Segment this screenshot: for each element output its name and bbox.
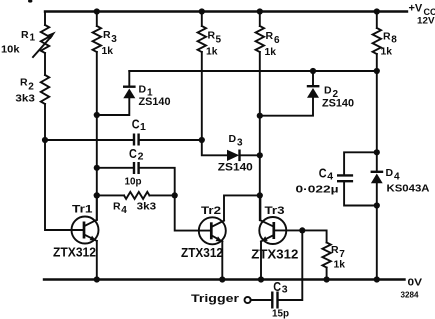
node: R4 left / Tr1 collector	[94, 192, 100, 198]
label KS043A	[387, 183, 430, 195]
label D3	[229, 133, 244, 149]
node: 0V / R8 branch	[374, 276, 380, 282]
node: top rail / R6	[257, 8, 263, 14]
svg-text:3284: 3284	[401, 291, 420, 300]
svg-text:ZTX312: ZTX312	[53, 246, 96, 260]
svg-text:C: C	[319, 167, 327, 181]
resistor R1 (variable)	[33, 25, 56, 57]
svg-text:Tr3: Tr3	[265, 205, 285, 217]
svg-text:C: C	[132, 118, 140, 132]
label 15p	[272, 308, 289, 319]
svg-text:8: 8	[391, 35, 397, 46]
wire: left branch R2 to Tr1 base	[45, 104, 84, 230]
diode D2	[260, 71, 320, 116]
svg-text:D: D	[229, 133, 237, 145]
svg-text:Trigger: Trigger	[191, 293, 240, 305]
svg-text:2: 2	[28, 82, 34, 93]
svg-text:ZS140: ZS140	[139, 96, 171, 108]
stray scan mark top-left	[28, 0, 32, 3]
node: R6 branch / Tr2 collector wire	[257, 192, 263, 198]
svg-text:C: C	[273, 280, 281, 294]
node: R4 right / C2 / Tr2 base	[172, 192, 178, 198]
svg-text:10k: 10k	[1, 44, 20, 56]
capacitor C4	[337, 152, 377, 205]
svg-text:D: D	[324, 85, 332, 97]
label 1k (R3)	[102, 45, 114, 57]
capacitor C1	[45, 134, 202, 146]
capacitor C2	[97, 162, 175, 195]
svg-text:2: 2	[138, 151, 144, 163]
label 1k (R7)	[334, 258, 346, 270]
resistor R6	[256, 12, 264, 53]
wire: between R1 and R2	[44, 53, 46, 75]
label 3k3	[15, 92, 35, 104]
svg-text:1k: 1k	[381, 46, 393, 58]
label Tr2	[201, 205, 221, 217]
svg-text:ZTX312: ZTX312	[251, 248, 298, 262]
node: R3 branch / C2 wire	[94, 165, 100, 171]
label D2	[324, 85, 339, 101]
label 12V	[417, 16, 435, 27]
svg-text:4: 4	[394, 172, 400, 183]
svg-text:1k: 1k	[334, 258, 346, 270]
wire: 0V rail	[44, 278, 405, 280]
diode D1	[97, 71, 136, 115]
label ZS140 (D1)	[139, 96, 171, 108]
svg-text:R: R	[331, 244, 339, 256]
svg-text:KS043A: KS043A	[387, 183, 430, 195]
node: 0V / Tr3 emitter	[258, 276, 264, 282]
label 3284	[401, 291, 420, 300]
node: top rail / R3	[94, 8, 100, 14]
wire: left branch top (rail to R1)	[44, 12, 46, 26]
svg-text:3: 3	[111, 34, 117, 45]
label C3	[273, 280, 288, 296]
svg-text:6: 6	[274, 35, 280, 46]
svg-text:10p: 10p	[125, 175, 142, 187]
node: R8 branch / C4 top	[374, 149, 380, 155]
node: R3 branch / D1 wire	[94, 112, 100, 118]
wire: D1 top to D2 top to R8 branch	[129, 70, 376, 72]
svg-text:1: 1	[140, 121, 146, 133]
svg-text:4: 4	[121, 205, 127, 216]
wire: R3 branch down to Tr1 collector	[96, 52, 98, 220]
label C2	[129, 147, 144, 163]
label R7	[331, 244, 345, 260]
svg-text:R: R	[21, 29, 29, 41]
svg-text:R: R	[20, 77, 28, 89]
label ZTX312 (Tr1)	[53, 246, 96, 260]
node: 0V / Tr1 emitter	[94, 276, 100, 282]
svg-text:5: 5	[216, 35, 222, 46]
svg-text:4: 4	[327, 171, 333, 183]
label D4	[386, 167, 401, 183]
node: left branch / C1 wire	[42, 137, 48, 143]
svg-text:Tr1: Tr1	[72, 204, 93, 216]
svg-text:D: D	[386, 167, 394, 179]
label ZS140 (D2)	[322, 98, 354, 110]
label 1k (R5)	[206, 46, 218, 58]
transistor Tr2	[199, 195, 260, 279]
transistor Tr1	[72, 196, 99, 280]
svg-text:R: R	[208, 30, 216, 42]
svg-text:15p: 15p	[272, 308, 289, 319]
svg-text:R: R	[383, 31, 391, 43]
diode D3	[227, 150, 260, 162]
label 0.022u	[296, 184, 339, 196]
node: R6 branch / D3 cathode	[257, 152, 263, 158]
node: D2 top	[310, 68, 316, 74]
node: top rail / R5	[199, 8, 205, 14]
label R2	[20, 77, 34, 93]
node: R5 branch / C1 wire	[199, 137, 205, 143]
svg-text:ZS140: ZS140	[322, 98, 354, 110]
resistor R2	[41, 75, 49, 104]
label R6	[266, 30, 281, 46]
label R5	[208, 30, 222, 46]
label D1	[139, 84, 154, 99]
resistor R4	[97, 192, 175, 199]
label ZTX312 (Tr2)	[181, 246, 223, 260]
svg-text:R: R	[113, 200, 121, 212]
svg-text:3k3: 3k3	[15, 92, 35, 104]
node: top rail / R8	[374, 8, 380, 14]
svg-text:1k: 1k	[102, 45, 114, 57]
resistor R5	[198, 12, 206, 53]
capacitor C3	[251, 230, 303, 308]
svg-text:ZTX312: ZTX312	[181, 246, 223, 260]
svg-text:12V: 12V	[417, 16, 435, 27]
node: R8 branch / top wire	[374, 68, 380, 74]
trigger input terminal	[245, 297, 251, 303]
label R1	[21, 29, 36, 44]
svg-text:+V: +V	[409, 3, 423, 15]
label R8	[383, 31, 397, 46]
svg-text:0·022µ: 0·022µ	[296, 184, 339, 196]
transistor Tr3 (mirrored)	[259, 195, 302, 279]
svg-text:3k3: 3k3	[137, 201, 157, 213]
label Tr1	[72, 204, 93, 216]
resistor R8	[373, 12, 381, 55]
svg-text:1k: 1k	[206, 46, 218, 58]
diode D4	[371, 172, 384, 184]
label 1k (R6)	[265, 46, 277, 58]
label Trigger	[191, 293, 240, 305]
node: R8 branch / C4 bottom	[374, 202, 380, 208]
wire: R6 branch down to Tr3 collector	[259, 52, 261, 220]
svg-text:R: R	[103, 29, 111, 41]
svg-text:C: C	[129, 147, 137, 161]
label C4	[319, 167, 334, 183]
label 3k3 (R4)	[137, 201, 157, 213]
node: R3 branch / R4 wire	[94, 192, 100, 198]
resistor R3	[93, 12, 101, 53]
wire: R8 branch down to 0V	[376, 54, 378, 280]
node: R6 branch / D2 wire	[257, 113, 263, 119]
svg-text:Tr2: Tr2	[201, 205, 221, 217]
label ZTX312 (Tr3)	[251, 248, 298, 262]
label 0V	[408, 277, 423, 289]
label 10p	[125, 175, 142, 187]
label ZS140 (D3)	[218, 162, 253, 174]
label +Vcc	[409, 3, 435, 18]
svg-text:1k: 1k	[265, 46, 277, 58]
svg-text:1: 1	[30, 33, 36, 44]
node: 0V / Tr2 emitter	[219, 276, 225, 282]
label R3	[103, 29, 117, 45]
node: 0V / R7	[324, 276, 330, 282]
resistor R7	[302, 230, 331, 279]
label 1k (R8)	[381, 46, 393, 58]
svg-text:0V: 0V	[408, 277, 423, 289]
svg-text:3: 3	[237, 138, 243, 149]
label C1	[132, 118, 146, 134]
label 10k	[1, 44, 20, 56]
svg-text:R: R	[266, 30, 274, 42]
label Tr3	[265, 205, 285, 217]
wire: R4 node down to Tr2 base	[175, 195, 211, 230]
svg-text:3: 3	[282, 284, 288, 296]
node: Tr3 base / R7 / C3	[299, 227, 305, 233]
wire: R5 branch down to D3	[202, 52, 227, 155]
svg-text:ZS140: ZS140	[218, 162, 253, 174]
wire: +Vcc top rail	[45, 10, 407, 12]
label R4	[113, 200, 127, 216]
svg-text:D: D	[139, 84, 147, 96]
